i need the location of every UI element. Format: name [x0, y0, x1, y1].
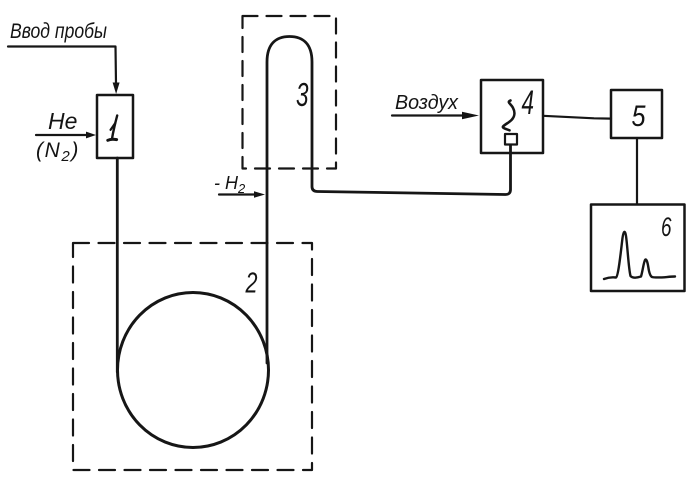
block 1 dosator — [97, 95, 133, 158]
arrowhead He into block 1 — [86, 132, 96, 139]
block 5 amplifier — [611, 90, 662, 138]
wire U-tube riser, bend and line to detector — [267, 37, 511, 364]
wire air arrow line — [392, 114, 468, 116]
svg-text:(N2): (N2) — [36, 139, 80, 165]
dashed box 3 converter — [243, 16, 337, 169]
arrowhead into block 1 — [113, 83, 120, 95]
arrowhead H2 — [254, 191, 265, 198]
wire amplifier to recorder — [636, 138, 638, 204]
svg-text:Ввод пробы: Ввод пробы — [10, 20, 107, 43]
svg-text:4: 4 — [522, 84, 535, 122]
coil column loop — [118, 293, 269, 448]
label 1 — [108, 116, 117, 141]
wire He carrier arrow line — [36, 134, 89, 136]
wire sample-inlet line — [8, 47, 116, 85]
flame symbol — [503, 101, 514, 131]
svg-text:He: He — [48, 108, 77, 134]
burner jet square — [505, 134, 517, 145]
svg-text:6: 6 — [661, 212, 672, 242]
wire H2 arrow line — [219, 193, 257, 195]
wire detector to amplifier — [543, 116, 611, 119]
svg-text:5: 5 — [632, 100, 646, 133]
chromatogram trace — [604, 232, 675, 279]
block 6 recorder — [591, 205, 685, 292]
arrowhead air into block 4 — [462, 112, 479, 119]
svg-text:2: 2 — [245, 268, 258, 300]
block 4 detector — [481, 80, 543, 153]
dashed box 2 thermostat — [73, 243, 312, 470]
svg-text:Воздух: Воздух — [395, 92, 459, 114]
svg-text:3: 3 — [296, 76, 309, 113]
wire column from block 1 down to coil — [116, 158, 119, 372]
